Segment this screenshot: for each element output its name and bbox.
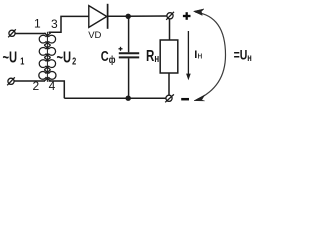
input terminal top-left (8, 29, 16, 37)
diode VD (89, 4, 108, 29)
svg-text:~U2: ~U2 (57, 47, 77, 66)
transformer T primary winding (39, 33, 51, 81)
wire (15, 33, 46, 35)
wire (14, 80, 45, 82)
input terminal bottom-left (7, 77, 15, 85)
junction dot bottom (126, 96, 131, 101)
capacitor branch wire lower (128, 58, 130, 98)
capacitor branch wire upper (128, 16, 130, 52)
wire pin4 riser (49, 81, 65, 98)
svg-text:2: 2 (32, 79, 39, 93)
wire pin3 riser (49, 16, 89, 32)
wire resistor top lead (169, 19, 171, 40)
svg-text:VD: VD (88, 30, 101, 41)
junction dot top (126, 14, 131, 19)
wire bottom rail (64, 97, 166, 99)
capacitor C plates (119, 53, 139, 57)
plus sign output (183, 12, 191, 20)
svg-text:~U1: ~U1 (3, 47, 25, 66)
current arrow I load (187, 31, 189, 75)
voltage arc arrowhead top (194, 9, 205, 16)
output terminal bottom-right (165, 94, 174, 102)
resistor R load box (160, 40, 178, 73)
output terminal top-right (166, 12, 174, 20)
svg-text:Rн: Rн (146, 46, 159, 66)
minus sign output (181, 98, 189, 101)
transformer T secondary winding (44, 33, 56, 81)
svg-text:Cф: Cф (101, 47, 116, 65)
svg-text:1: 1 (34, 16, 41, 30)
svg-text:Iн: Iн (194, 49, 202, 61)
wire top rail (108, 15, 167, 17)
wire resistor bottom lead (168, 73, 170, 95)
voltage arc arrowhead bottom (194, 95, 205, 101)
voltage arc arrow (196, 12, 226, 100)
svg-text:=Uн: =Uн (234, 47, 252, 63)
svg-text:3: 3 (51, 17, 58, 31)
capacitor polarity plus (119, 47, 123, 51)
transformer core (46, 32, 48, 82)
